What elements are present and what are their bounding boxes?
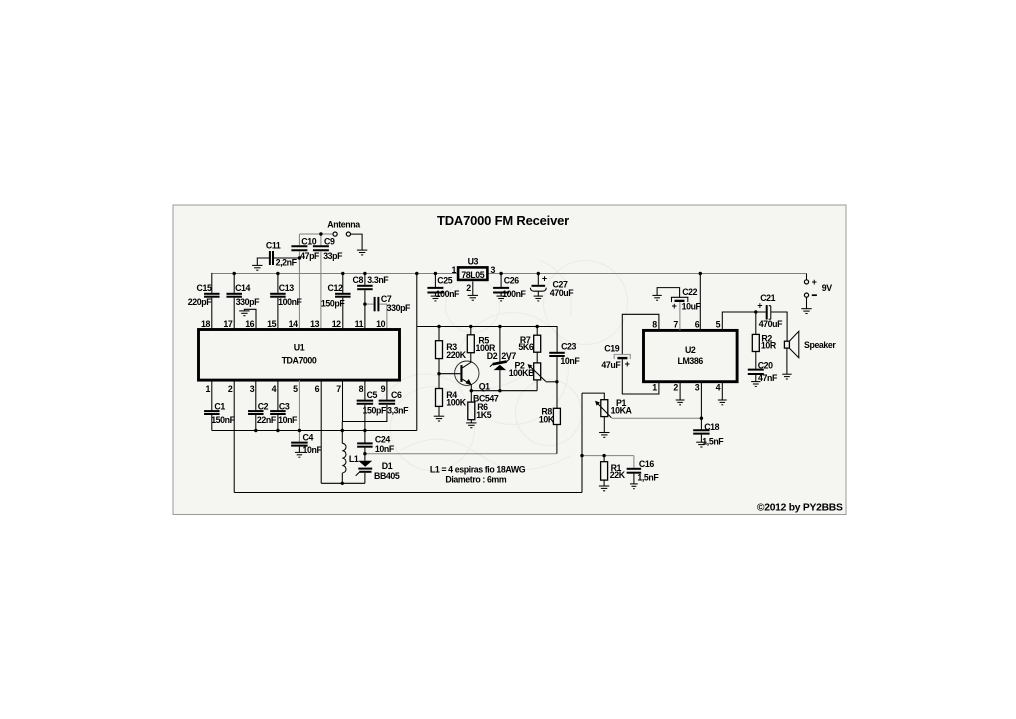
wire pin2 down	[233, 380, 235, 492]
ground P1	[599, 433, 609, 438]
svg-text:100nF: 100nF	[278, 297, 302, 307]
svg-text:100K: 100K	[446, 398, 466, 408]
svg-text:2: 2	[466, 283, 471, 293]
svg-text:12: 12	[332, 319, 341, 329]
capacitor C9	[313, 246, 329, 250]
svg-text:C13: C13	[279, 283, 294, 293]
capacitor C11	[270, 251, 273, 265]
wire R2 to C20	[755, 352, 757, 369]
resistor R7	[534, 335, 541, 352]
svg-text:C18: C18	[704, 422, 719, 432]
wire pin8 to C5	[364, 380, 366, 400]
wire P1 top link	[582, 393, 604, 400]
svg-text:+: +	[672, 301, 677, 311]
node C8-C7 junction	[363, 302, 366, 305]
svg-text:U2: U2	[685, 345, 696, 355]
wire base	[439, 373, 460, 375]
wire rail to R3	[438, 327, 440, 341]
regulator U3 box	[458, 267, 487, 280]
wire R1 row	[582, 455, 634, 457]
svg-text:2V7: 2V7	[501, 351, 516, 361]
wire C24 to D1	[364, 448, 366, 461]
svg-text:470uF: 470uF	[759, 319, 783, 329]
capacitor C21 cup	[769, 306, 771, 320]
wire pin5 to C4	[298, 380, 300, 442]
svg-text:D1: D1	[382, 461, 393, 471]
wire rail y326	[417, 327, 557, 352]
wire C27 ground	[537, 291, 539, 296]
wire C11 left to ground	[257, 258, 269, 265]
svg-text:10nF: 10nF	[560, 356, 580, 366]
svg-text:5K6: 5K6	[518, 342, 533, 352]
svg-text:10nF: 10nF	[278, 415, 298, 425]
svg-text:C6: C6	[391, 390, 402, 400]
transistor Q1 circle	[455, 361, 479, 385]
diode D1 varactor	[356, 461, 373, 476]
node bus-C27	[537, 272, 540, 275]
wire bus to battery	[806, 274, 808, 280]
ground C16	[630, 484, 638, 489]
svg-text:1,5nF: 1,5nF	[702, 436, 724, 446]
svg-text:220pF: 220pF	[188, 297, 212, 307]
ground C4	[295, 452, 304, 457]
wire rail to D2	[499, 327, 501, 363]
svg-text:3: 3	[491, 265, 496, 275]
svg-text:10KA: 10KA	[611, 405, 633, 415]
ground C11	[252, 265, 262, 270]
wire L1 top link	[341, 422, 343, 444]
svg-text:C4: C4	[303, 432, 314, 442]
wire bus to C25	[434, 274, 436, 288]
wire pin to C3	[277, 380, 279, 410]
capacitor C22 cup	[671, 297, 689, 302]
capacitor C20	[748, 370, 764, 374]
watermark	[381, 261, 628, 471]
svg-text:7: 7	[336, 384, 341, 394]
ground C27	[534, 296, 543, 301]
capacitor C21 plate	[766, 305, 768, 319]
capacitor C2	[248, 411, 263, 414]
wire C14 top	[233, 273, 235, 293]
ground U2 pin2	[676, 400, 685, 405]
capacitor C26	[493, 288, 509, 293]
svg-text:L1 = 4 espiras fio 18AWG: L1 = 4 espiras fio 18AWG	[430, 465, 526, 475]
svg-text:C2: C2	[258, 402, 269, 412]
svg-text:10nF: 10nF	[375, 444, 395, 454]
pin numbers U2 bottom	[652, 382, 720, 392]
ground pin16	[239, 311, 249, 316]
wire R8 bottom	[556, 425, 558, 454]
svg-text:L1: L1	[349, 454, 359, 464]
capacitor C25	[427, 288, 443, 293]
svg-text:Speaker: Speaker	[804, 340, 836, 350]
node L1 bottom	[341, 482, 344, 485]
wire bottom L1 D1	[321, 482, 365, 484]
antenna terminal right	[346, 232, 350, 236]
amplifier U2 box	[644, 330, 738, 381]
wire pin to C2	[255, 380, 257, 410]
wire speaker to ground	[786, 348, 788, 374]
svg-text:10nF: 10nF	[303, 445, 323, 455]
svg-text:TDA7000: TDA7000	[282, 356, 317, 366]
svg-text:100nF: 100nF	[502, 289, 526, 299]
wire C7 to pin10	[379, 304, 387, 329]
wire C21 to speaker	[771, 312, 787, 341]
wire R6 to ground	[470, 420, 472, 423]
wire C9 to pin13	[320, 251, 322, 329]
svg-text:17: 17	[223, 319, 232, 329]
svg-text:22nF: 22nF	[257, 415, 277, 425]
svg-text:TDA7000 FM Receiver: TDA7000 FM Receiver	[437, 213, 569, 228]
wire C23 to R8	[556, 357, 558, 408]
wire C14 bottom	[233, 298, 235, 329]
svg-text:6: 6	[315, 384, 320, 394]
capacitor C19 cup	[614, 355, 631, 360]
wire C15 top	[211, 273, 213, 293]
node wiper junction	[555, 380, 558, 383]
svg-text:150pF: 150pF	[321, 298, 345, 308]
node bus-C25	[434, 272, 437, 275]
wire C16 ground	[633, 474, 635, 484]
wire D2 bottom	[499, 370, 501, 391]
node bus-C12	[341, 272, 344, 275]
wire pin7 down	[343, 380, 387, 421]
svg-text:C15: C15	[197, 283, 212, 293]
wire left riser	[581, 393, 583, 492]
wire L1 bottom seg	[341, 473, 343, 483]
svg-text:78L05: 78L05	[461, 270, 484, 280]
svg-text:220K: 220K	[446, 350, 466, 360]
svg-text:C16: C16	[639, 459, 654, 469]
svg-text:1K5: 1K5	[476, 410, 491, 420]
capacitor C8	[357, 286, 373, 289]
node base junction	[437, 372, 440, 375]
svg-text:+: +	[625, 359, 630, 369]
node bus riser	[415, 272, 418, 275]
potentiometer P1 wiper	[595, 401, 611, 418]
svg-text:150nF: 150nF	[211, 415, 235, 425]
wire C2 bottom	[255, 415, 257, 431]
svg-text:C19: C19	[604, 344, 619, 354]
capacitor C5	[357, 401, 374, 404]
resistor R6	[468, 402, 475, 420]
wire varicap tune line	[365, 453, 557, 455]
wire main bus	[212, 273, 807, 275]
svg-text:7: 7	[673, 320, 678, 330]
ground C18	[696, 442, 706, 447]
wire pin16 ground link	[244, 309, 256, 329]
node rail R5	[469, 325, 472, 328]
svg-text:8: 8	[652, 320, 657, 330]
svg-text:14: 14	[289, 319, 298, 329]
node bus-C26	[499, 272, 502, 275]
svg-text:470uF: 470uF	[550, 288, 574, 298]
svg-text:15: 15	[267, 319, 276, 329]
potentiometer P2 wiper	[528, 364, 557, 382]
svg-text:10R: 10R	[761, 341, 777, 351]
svg-text:C26: C26	[504, 276, 519, 286]
wire wiper to pin3	[612, 417, 702, 419]
svg-text:11: 11	[355, 319, 364, 329]
capacitor C27	[530, 286, 546, 291]
wire R4 to ground	[438, 406, 440, 416]
wire pin to C1	[211, 380, 213, 410]
svg-text:8: 8	[359, 384, 364, 394]
wire bus to C27	[537, 274, 539, 285]
svg-text:C9: C9	[324, 237, 335, 247]
svg-text:Q1: Q1	[479, 381, 490, 391]
wire C8 to pin11	[364, 290, 366, 329]
node R2 top	[754, 310, 757, 313]
svg-text:1: 1	[206, 384, 211, 394]
svg-text:5: 5	[293, 384, 298, 394]
svg-text:10K: 10K	[539, 415, 555, 425]
wire C7 left stub	[365, 303, 374, 305]
wire pin9 to C6	[386, 380, 388, 400]
node C2 row	[254, 429, 257, 432]
svg-text:330pF: 330pF	[236, 297, 260, 307]
wire emitter row	[471, 390, 537, 392]
ground C26	[496, 296, 505, 301]
svg-text:U1: U1	[294, 343, 305, 353]
wire bus to C26	[500, 274, 502, 288]
ground speaker	[782, 374, 791, 379]
svg-text:BB405: BB405	[374, 471, 400, 481]
minus sign 9V	[812, 294, 817, 296]
svg-text:13: 13	[310, 319, 319, 329]
svg-text:LM386: LM386	[678, 356, 704, 366]
svg-text:150pF: 150pF	[363, 405, 387, 415]
svg-text:+: +	[757, 301, 762, 311]
svg-text:C14: C14	[235, 283, 250, 293]
wire pin3 down	[700, 382, 702, 429]
capacitor C1	[204, 411, 220, 414]
svg-text:2: 2	[228, 384, 233, 394]
wire C10 to pin14	[298, 251, 300, 329]
terminal 9V plus	[804, 280, 808, 284]
node C4 row	[298, 429, 301, 432]
wire antenna ground link	[351, 234, 362, 250]
wire C22 top link	[657, 288, 680, 298]
ground U3	[468, 295, 478, 300]
wire C13 bottom	[277, 298, 279, 329]
svg-text:2,2nF: 2,2nF	[276, 257, 298, 267]
node rail D2	[498, 325, 501, 328]
wire pin6 down	[320, 380, 322, 483]
capacitor C4	[291, 443, 308, 446]
wire C3 bottom	[277, 415, 279, 431]
svg-text:1,5nF: 1,5nF	[637, 473, 659, 483]
svg-text:9V: 9V	[822, 283, 832, 293]
ground C22	[652, 295, 661, 300]
capacitor C22 plate	[675, 300, 685, 302]
node antenna junction	[319, 232, 322, 235]
capacitor C12	[335, 294, 351, 297]
wire rail to R5	[470, 327, 472, 335]
wire C19 to pin1	[622, 359, 659, 394]
svg-text:330pF: 330pF	[387, 303, 411, 313]
wire pin4 U2	[721, 382, 723, 400]
wire C16 top	[633, 456, 635, 468]
ground antenna	[357, 250, 367, 255]
resistor R4	[436, 389, 443, 407]
wire pin2 U2	[679, 382, 681, 400]
wire pin8 loop	[622, 314, 659, 354]
svg-text:33pF: 33pF	[323, 251, 343, 261]
pin numbers U1 bottom 1-9	[206, 384, 386, 394]
svg-text:©2012 by PY2BBS: ©2012 by PY2BBS	[757, 502, 843, 513]
wire C4 to ground	[298, 447, 300, 453]
antenna terminal left	[333, 232, 337, 236]
svg-text:C3: C3	[279, 402, 290, 412]
svg-text:C24: C24	[375, 434, 390, 444]
svg-text:6: 6	[695, 320, 700, 330]
svg-text:47pF: 47pF	[300, 251, 320, 261]
wire U3 pin2 ground	[472, 282, 474, 296]
wire R7 to P2	[536, 352, 538, 363]
svg-text:3,3nF: 3,3nF	[387, 405, 409, 415]
capacitor C18	[693, 430, 709, 433]
node bus-C8	[363, 272, 366, 275]
wire antenna top	[299, 233, 332, 235]
node bus-C13	[276, 272, 279, 275]
svg-text:C8: C8	[353, 275, 364, 285]
svg-text:3: 3	[695, 382, 700, 392]
transistor Q1 emitter	[462, 379, 471, 391]
svg-text:+: +	[812, 277, 817, 287]
wire D1 bottom	[364, 473, 366, 483]
svg-text:5: 5	[716, 320, 721, 330]
capacitor C7	[375, 297, 379, 311]
svg-text:C5: C5	[367, 390, 378, 400]
capacitor C15	[204, 294, 220, 297]
speaker symbol	[784, 331, 798, 357]
svg-text:100nF: 100nF	[436, 289, 460, 299]
ground battery	[801, 309, 811, 314]
wire R1 ground	[603, 480, 605, 486]
svg-text:Antenna: Antenna	[327, 219, 360, 229]
resistor R2	[752, 334, 759, 351]
wire C25 ground	[434, 294, 436, 297]
op-amp U1 box	[199, 330, 400, 381]
svg-text:Diametro : 6mm: Diametro : 6mm	[445, 475, 506, 485]
svg-text:D2: D2	[487, 351, 498, 361]
node bus-C14	[233, 272, 236, 275]
wire emitter to R6	[470, 391, 472, 402]
ground R1	[599, 486, 609, 491]
svg-text:1: 1	[652, 382, 657, 392]
transistor Q1 base bar	[460, 365, 462, 382]
resistor R3	[436, 341, 443, 359]
svg-text:3: 3	[250, 384, 255, 394]
capacitor C10	[291, 246, 307, 250]
capacitor C6	[379, 401, 396, 404]
node L1 row	[341, 429, 344, 432]
svg-text:+: +	[542, 274, 547, 284]
svg-text:18: 18	[201, 319, 210, 329]
capacitor C14	[226, 294, 242, 297]
svg-text:C23: C23	[561, 342, 576, 352]
svg-text:4: 4	[272, 384, 277, 394]
node C3 row	[276, 429, 279, 432]
wire C9 top	[320, 234, 322, 245]
svg-text:22K: 22K	[610, 470, 626, 480]
svg-text:10uF: 10uF	[682, 301, 702, 311]
node R1 top	[602, 454, 605, 457]
wire bottom rail	[234, 492, 582, 494]
wire C10 top	[298, 234, 300, 245]
capacitor C24	[357, 443, 373, 446]
svg-text:C12: C12	[328, 283, 343, 293]
wire C26 ground	[500, 294, 502, 297]
wire C12 bottom	[342, 298, 344, 329]
wire C20 ground	[755, 375, 757, 382]
ground C25	[431, 296, 440, 301]
wire node row y430	[212, 430, 417, 432]
node rail R3	[437, 325, 440, 328]
resistor R5	[467, 335, 474, 353]
svg-text:1: 1	[452, 265, 457, 275]
wire C12 top	[342, 273, 344, 293]
capacitor C13	[270, 294, 286, 297]
wire rail to R7	[536, 327, 538, 336]
svg-text:9: 9	[381, 384, 386, 394]
svg-text:C11: C11	[266, 241, 281, 251]
potentiometer P2 body	[534, 363, 541, 380]
node rail R7	[536, 325, 539, 328]
svg-text:3.3nF: 3.3nF	[367, 275, 389, 285]
wire riser bus to row	[416, 274, 418, 431]
wire minus to ground	[806, 297, 808, 308]
wire R3 to R4	[438, 359, 440, 389]
resistor R1	[601, 462, 608, 480]
svg-text:47uF: 47uF	[601, 360, 621, 370]
capacitor C3	[270, 411, 286, 414]
svg-text:4: 4	[716, 382, 721, 392]
wire R2 top	[755, 312, 757, 334]
svg-text:C20: C20	[758, 361, 773, 371]
wire R1 top	[603, 456, 605, 462]
capacitor C16	[627, 469, 642, 473]
node C24-D1 junction	[363, 452, 366, 455]
wire C1 bottom	[211, 415, 213, 431]
wire pin5 up	[722, 312, 765, 330]
pin numbers U2 top	[652, 320, 720, 330]
terminal 9V minus	[804, 293, 808, 297]
svg-text:C22: C22	[682, 287, 697, 297]
svg-text:10: 10	[376, 319, 385, 329]
node C24 row	[363, 429, 366, 432]
capacitor C23	[549, 353, 565, 356]
diode D2 zener	[490, 359, 510, 370]
wire C5 bottom to C24	[364, 405, 366, 443]
wire P1 to ground	[603, 417, 605, 433]
svg-text:16: 16	[245, 319, 254, 329]
wire P2 bottom	[536, 380, 538, 391]
svg-text:C25: C25	[437, 276, 452, 286]
ground R6	[466, 423, 476, 428]
wire C8 top	[364, 274, 366, 285]
node riser-R1 row	[580, 454, 583, 457]
potentiometer P1 body	[601, 400, 608, 417]
wire C18 ground	[700, 435, 702, 443]
ground C20	[751, 382, 760, 387]
svg-text:100KB: 100KB	[509, 368, 534, 378]
transistor Q1 collector	[462, 353, 470, 368]
ground U2 pin4	[718, 400, 727, 405]
node pin3	[700, 417, 703, 420]
svg-text:C1: C1	[214, 402, 225, 412]
